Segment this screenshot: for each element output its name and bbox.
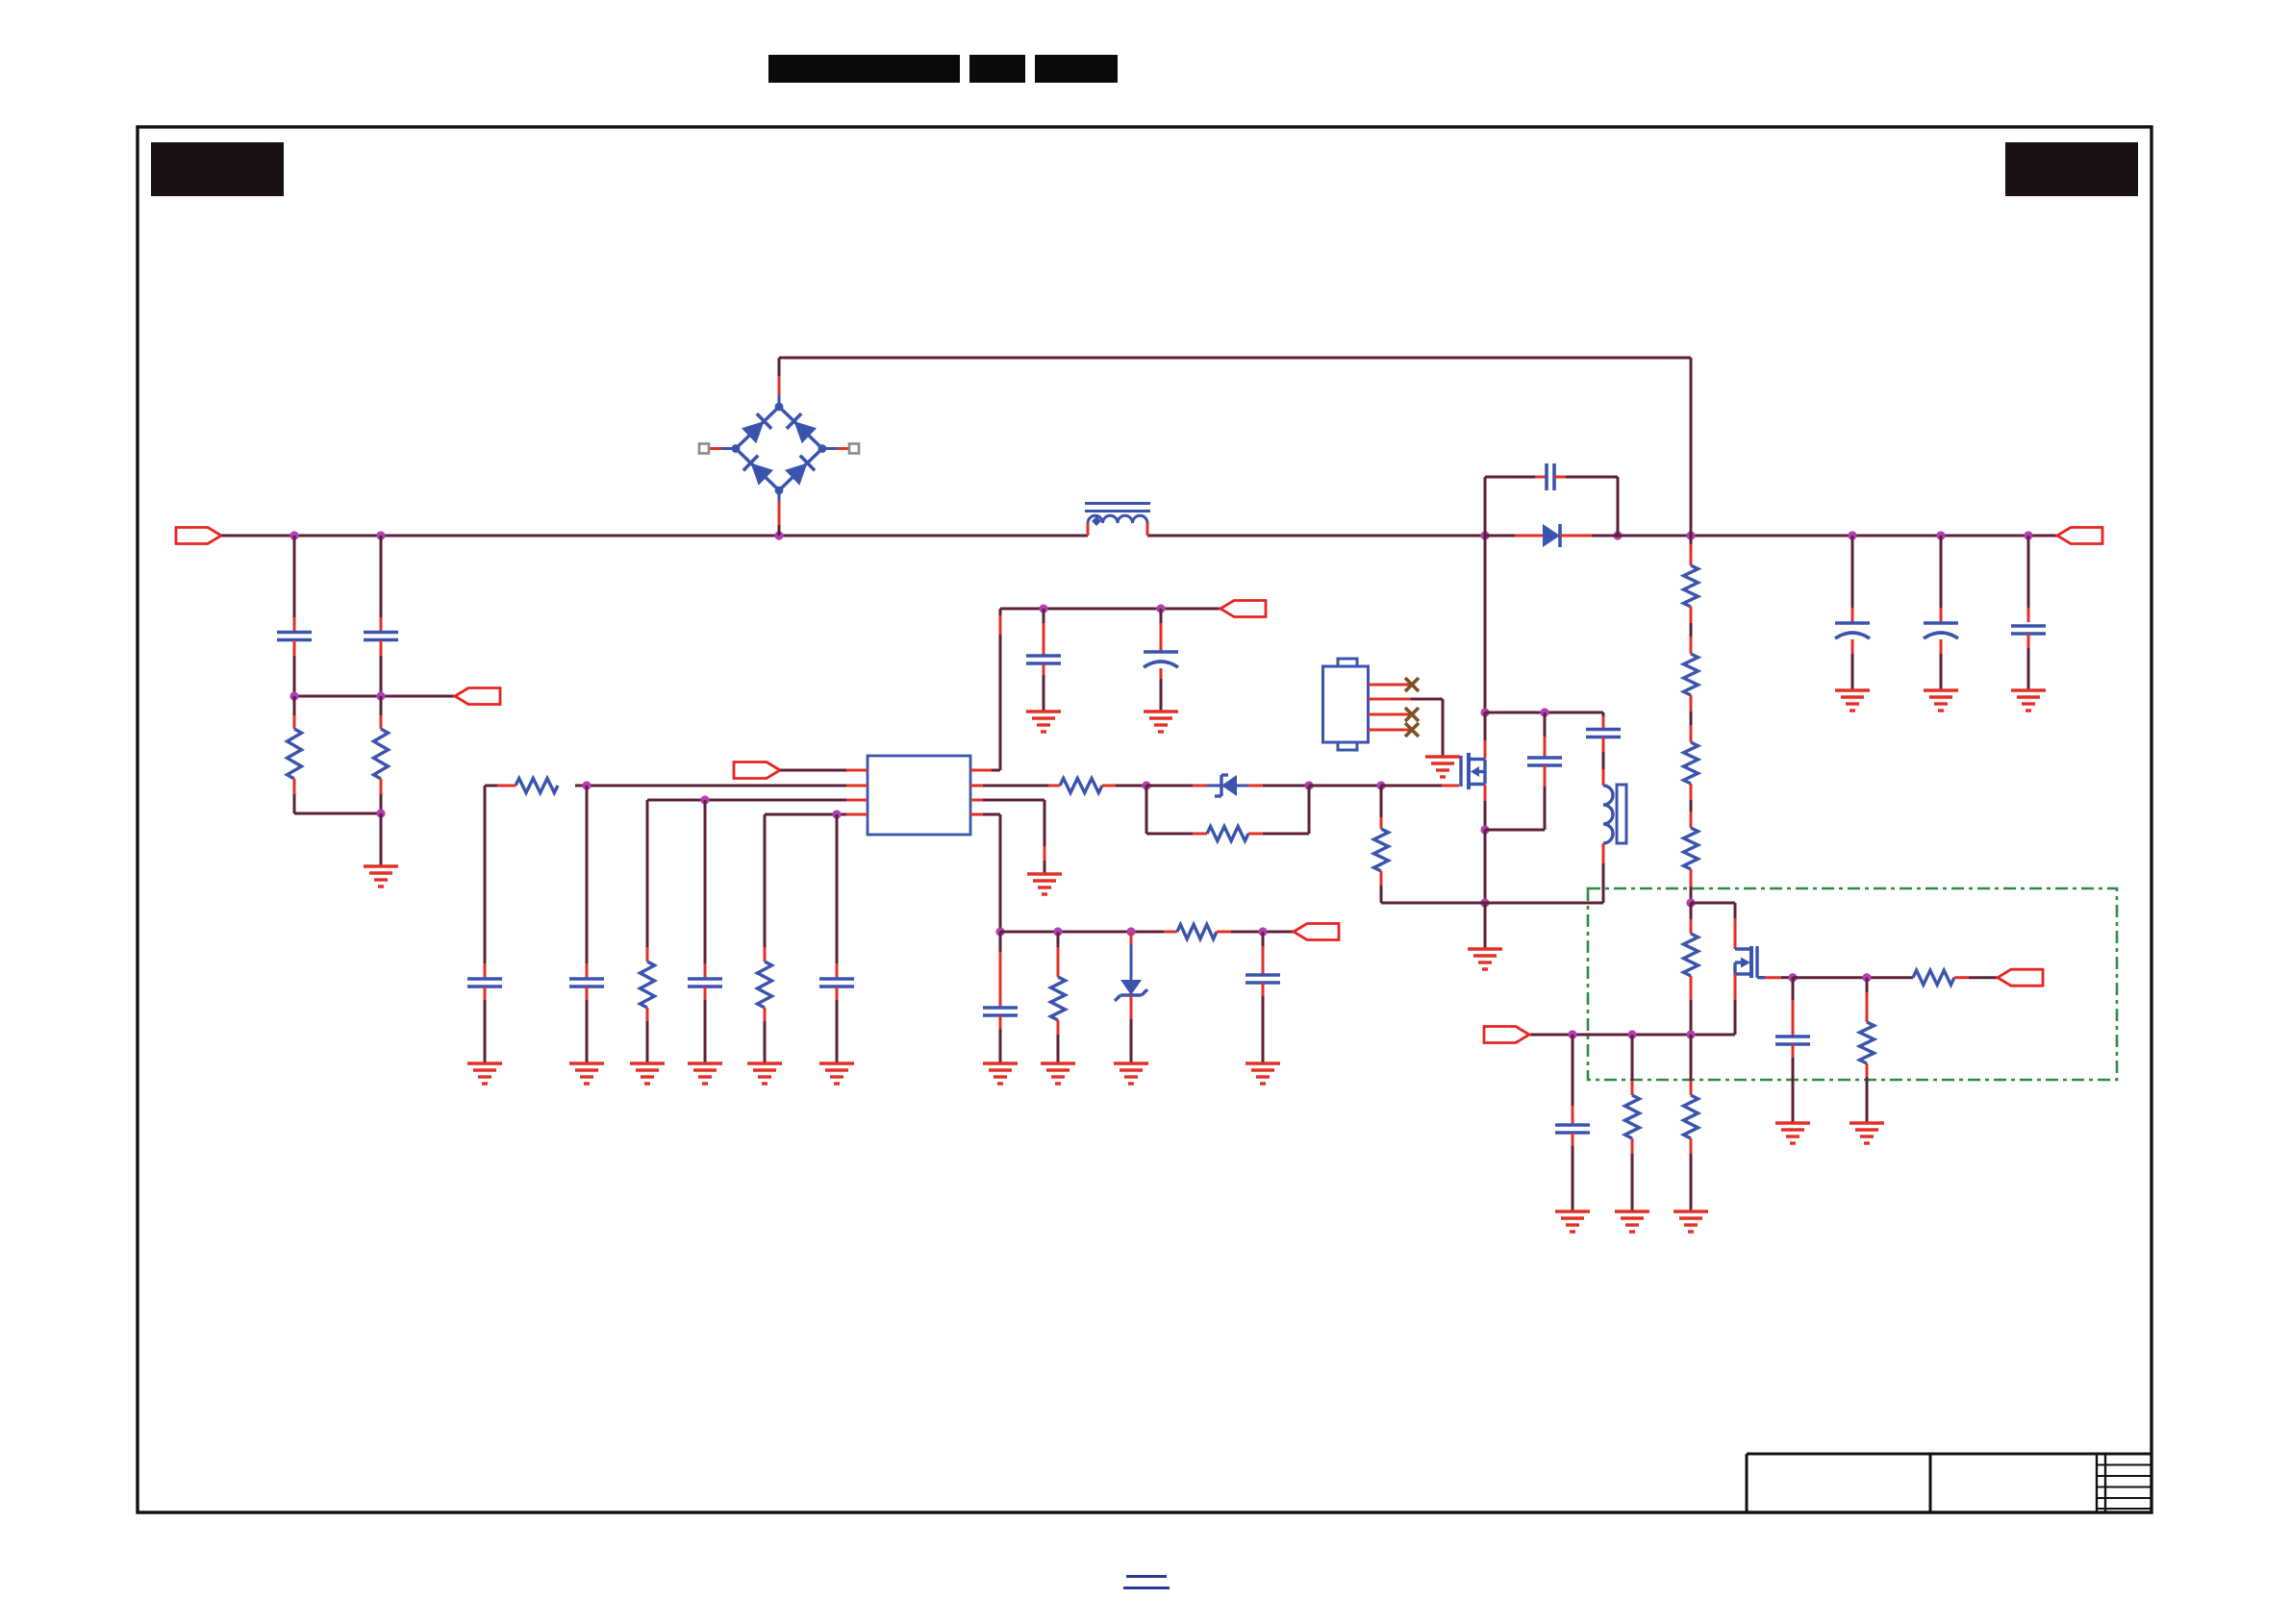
node zener-tee <box>1142 781 1150 789</box>
capacitor C12 <box>2011 626 2046 634</box>
wire to ground <box>380 813 383 866</box>
resistor R2 <box>374 729 389 779</box>
transformer T1 core <box>1617 785 1626 843</box>
node rail-C3 <box>1039 604 1047 612</box>
wire R16 lower <box>1866 1063 1869 1123</box>
bridge diode D-TR <box>787 413 817 443</box>
capacitor C5 <box>1547 463 1554 490</box>
wire C6 lower <box>484 987 487 1063</box>
port P1 input arrow <box>176 528 221 544</box>
wire zener right lead <box>1237 785 1309 787</box>
diode D1 <box>1543 524 1560 547</box>
wire Q2 gate lead <box>1765 976 1793 979</box>
ground GND12 <box>1041 1063 1075 1084</box>
resistor R23 <box>1684 828 1699 869</box>
wire C9 lead <box>836 814 839 978</box>
wire fbC2 lower <box>1262 983 1265 1063</box>
ground GND2 <box>1026 712 1061 732</box>
resistor R3 <box>516 779 558 793</box>
no-connect X2 <box>1405 708 1419 721</box>
wire fbC lower <box>999 1015 1002 1063</box>
capacitor C3 <box>1026 656 1061 663</box>
node pin4-col <box>832 810 841 818</box>
wire U1 pin1 <box>780 769 868 772</box>
wire bottom join <box>294 812 381 815</box>
node tap-R2 <box>376 691 385 700</box>
redacted label top-left <box>151 142 284 196</box>
wire Q2 out row <box>1793 976 1913 979</box>
wire R2 lower lead <box>380 779 383 813</box>
ground GND14 <box>1246 1063 1280 1084</box>
wire source gnd <box>1484 903 1487 949</box>
ground GND22 <box>1835 690 1870 711</box>
inductor L1 coil <box>1088 515 1147 523</box>
wire bridge bottom lead <box>778 490 781 536</box>
capacitor C11 polarized <box>1924 623 1958 638</box>
capacitor C8 <box>688 979 722 987</box>
wire R1 upper lead <box>293 696 296 729</box>
resistor R16 <box>1860 1022 1875 1063</box>
wire Q1 drain lead <box>1484 712 1487 759</box>
wire J1 pin3 <box>1369 713 1411 716</box>
port P6 fb arrow <box>1294 924 1339 940</box>
resistor R15 <box>1913 970 1954 985</box>
sheet border frame <box>138 127 2152 1512</box>
wire R9 lower path <box>1146 786 1207 834</box>
wire C11 upper lead <box>1940 536 1943 622</box>
port P7 sense arrow <box>1998 969 2043 986</box>
wire top loop <box>779 358 1691 536</box>
node rail-C4 <box>1156 604 1165 612</box>
resistor R18 <box>1684 1095 1699 1138</box>
capacitor C18 <box>1555 1125 1590 1133</box>
wire chain link3 <box>1690 784 1693 828</box>
wire Q2 source lead <box>1529 974 1735 1035</box>
wire U1 pin7 <box>970 785 1060 787</box>
port P5 rail arrow <box>1220 601 1266 617</box>
capacitor C13 <box>983 1008 1018 1015</box>
inductor L1 phase dot <box>1092 516 1101 526</box>
node bus-D1a <box>1480 531 1489 539</box>
wire vcc top rail <box>1000 608 1220 611</box>
no-connect X3 <box>1405 723 1419 737</box>
wire C5 loop right <box>1554 477 1618 536</box>
wire C12 upper lead <box>2027 536 2030 622</box>
ground GND17 <box>1775 1123 1810 1143</box>
wire C7 lead <box>586 786 589 978</box>
resistor R8 <box>1060 779 1102 793</box>
wire bus left <box>221 535 1088 537</box>
resistor R11 <box>1051 977 1066 1020</box>
wire R5 lower <box>764 1008 767 1063</box>
port P8 sense-in arrow <box>1484 1027 1529 1043</box>
ground GND20 <box>1615 1212 1649 1232</box>
wire chain stub1 <box>1690 536 1693 565</box>
title block <box>1747 1454 2152 1512</box>
wire C18 lead <box>1572 1035 1574 1124</box>
wire U1 pin2 <box>575 785 868 787</box>
wire C16 lower lead <box>1602 737 1605 787</box>
wire U1 pin3 <box>647 799 868 802</box>
wire D1 cathode lead <box>1560 535 1618 537</box>
redacted title bar 2 <box>969 55 1025 83</box>
node pin3-col <box>700 795 709 804</box>
node bus-C12 <box>2024 531 2032 539</box>
wire R18 lead <box>1690 1035 1693 1095</box>
wire C1 lower lead <box>293 640 296 696</box>
ground GND6 <box>569 1063 604 1084</box>
ground GND21 <box>1673 1212 1708 1232</box>
resistor R4 <box>641 962 655 1008</box>
wire fbZ lower <box>1130 995 1133 1063</box>
resistor R20 <box>1684 565 1699 607</box>
node drain-C15 <box>1540 708 1548 716</box>
node chain-Q2 <box>1686 898 1695 907</box>
node lowrow-3 <box>1686 1030 1695 1038</box>
wire C16 upper lead <box>1602 712 1605 729</box>
node pin2-col <box>582 781 591 789</box>
revision underline 2 <box>1123 1587 1170 1589</box>
capacitor C10 polarized <box>1835 623 1870 638</box>
capacitor C15 <box>1527 758 1562 765</box>
wire C3 lower lead <box>1043 664 1045 712</box>
wire bridge top lead <box>778 358 781 407</box>
wire R18 lower <box>1690 1138 1693 1212</box>
wire zener left lead <box>1146 785 1221 787</box>
wire C9 lower <box>836 987 839 1063</box>
wire R16 lead <box>1866 978 1869 1022</box>
ground GND7 <box>630 1063 665 1084</box>
connector J1 body <box>1323 659 1369 750</box>
wire J1 pin1 <box>1369 684 1411 687</box>
wire R1 lower lead <box>293 779 296 813</box>
wire C15 upper lead <box>1544 712 1547 757</box>
wire gate feed <box>1309 785 1381 787</box>
redacted title bar 3 <box>1035 55 1118 83</box>
wire U1 pin6 <box>970 800 1044 874</box>
wire R12 lower <box>1381 871 1485 903</box>
wire C4 lower lead <box>1160 668 1163 712</box>
wire source down <box>1484 830 1487 903</box>
ground GND15 <box>1425 757 1460 777</box>
port P3 tap arrow <box>455 688 500 705</box>
wire C17 lower <box>1792 1044 1795 1123</box>
resistor R12 <box>1374 829 1389 871</box>
wire R17 lead <box>1631 1035 1634 1095</box>
wire C3 upper lead <box>1043 609 1045 655</box>
wire chain link1 <box>1690 607 1693 654</box>
ground GND24 <box>2011 690 2046 711</box>
bridge diode D-TL <box>742 413 771 443</box>
ground GND18 <box>1850 1123 1884 1143</box>
wire fbR lead <box>1057 932 1060 977</box>
wire R8 right lead <box>1102 785 1146 787</box>
bridge diode D-BR <box>785 456 815 486</box>
wire R24 lower <box>1690 976 1693 1035</box>
wire R4 lower <box>646 1008 649 1063</box>
ground GND19 <box>1555 1212 1590 1232</box>
node fb-3 <box>1126 927 1135 936</box>
node bus-C10 <box>1848 531 1856 539</box>
wire fbC2 lead <box>1262 932 1265 974</box>
ground GND11 <box>983 1063 1018 1084</box>
resistor R17 <box>1625 1095 1640 1138</box>
wire C1 upper lead <box>293 536 296 631</box>
ground GND8 <box>688 1063 722 1084</box>
wire C10 lower lead <box>1851 639 1854 690</box>
ground GND9 <box>747 1063 782 1084</box>
wire R15 right lead <box>1954 976 1998 979</box>
ground GND13 <box>1114 1063 1148 1084</box>
node bus-C2 <box>376 531 385 539</box>
redacted label top-right <box>2005 142 2138 196</box>
node gate-tee <box>1376 781 1385 789</box>
capacitor C17 <box>1775 1037 1810 1044</box>
revision underline 1 <box>1126 1575 1167 1578</box>
wire J1 pin2 <box>1369 699 1444 757</box>
wire drain row <box>1485 712 1603 714</box>
transformer T1 primary <box>1603 786 1613 843</box>
wire C10 upper lead <box>1851 536 1854 622</box>
wire U1 pin8 <box>970 609 1000 770</box>
ground GND4 <box>1027 874 1062 894</box>
wire R9 right lead <box>1248 786 1309 834</box>
node fb-1 <box>995 927 1004 936</box>
resistor R5 <box>758 962 772 1008</box>
wire chain link2 <box>1690 695 1693 742</box>
node join-gnd <box>376 809 385 817</box>
node fb-4 <box>1258 927 1267 936</box>
node bus-Rchain <box>1686 531 1695 539</box>
mosfet Q1 <box>1381 753 1485 789</box>
wire chain link4 <box>1690 869 1693 903</box>
node bus-bridge <box>774 531 783 539</box>
capacitor C1 <box>277 633 312 640</box>
wire C5 loop left <box>1485 477 1547 536</box>
wire bus right <box>1618 535 2057 537</box>
capacitor C7 <box>569 979 604 987</box>
wire U1 pin4 <box>765 813 868 816</box>
port P2 output arrow <box>2057 528 2102 544</box>
ground GND1 <box>364 866 398 887</box>
redacted title bar 1 <box>768 55 960 83</box>
wire Q1 source lead <box>1484 785 1487 830</box>
inductor L1 core <box>1085 504 1150 512</box>
wire C2 lower lead <box>380 640 383 696</box>
node Q1-drain-tee <box>1480 708 1489 716</box>
wire C15 lower lead <box>1485 765 1545 830</box>
wire C12 lower lead <box>2027 634 2030 690</box>
wire Q2 drain feed <box>1691 903 1735 949</box>
ground GND10 <box>819 1063 854 1084</box>
mosfet Q2 <box>1735 946 1765 978</box>
wire C17 lead <box>1792 978 1795 1036</box>
bridge right terminal <box>822 444 859 454</box>
node zener-join <box>1304 781 1313 789</box>
node lowrow-1 <box>1568 1030 1576 1038</box>
node Q1-source-tee <box>1480 825 1489 834</box>
wire R4 lead <box>646 800 649 962</box>
capacitor C4 polarized <box>1144 652 1178 667</box>
no-connect X1 <box>1405 678 1419 691</box>
resistor R21 <box>1684 654 1699 695</box>
wire C11 lower lead <box>1940 639 1943 690</box>
bridge BD1 diamond <box>736 407 822 490</box>
wire C7 lower <box>586 987 589 1063</box>
node bus-D1k <box>1613 531 1622 539</box>
wire fbZ lead <box>1130 932 1133 981</box>
wire C8 lead <box>704 800 707 978</box>
ground GND16 <box>1468 949 1502 969</box>
capacitor C14 <box>1246 975 1280 983</box>
node Q2out-1 <box>1788 973 1797 982</box>
node bus-C11 <box>1936 531 1945 539</box>
sense box (green dashed) <box>1588 888 2117 1080</box>
node tap-R1 <box>289 691 298 700</box>
node source-gnd-tee <box>1480 898 1489 907</box>
wire C8 lower <box>704 987 707 1063</box>
ground GND23 <box>1924 690 1958 711</box>
wire bus mid <box>1147 535 1485 537</box>
node bus-C1 <box>289 531 298 539</box>
wire gate-res link <box>1380 786 1383 829</box>
wire C2 upper lead <box>380 536 383 631</box>
capacitor C9 <box>819 979 854 987</box>
capacitor C16 <box>1586 730 1621 737</box>
capacitor C2 <box>364 633 398 640</box>
capacitor C6 <box>467 979 502 987</box>
wire fbR lower <box>1057 1020 1060 1063</box>
wire D1 anode lead <box>1485 535 1543 537</box>
wire fb right <box>1217 931 1294 934</box>
wire J1 pin4 <box>1369 729 1411 732</box>
wire C4 upper lead <box>1160 609 1163 651</box>
wire fb row <box>1000 931 1177 934</box>
wire T1 bottom lead <box>1485 843 1603 903</box>
wire R5 lead <box>764 814 767 962</box>
zener diode ZD2 <box>1115 980 1147 1001</box>
resistor R22 <box>1684 742 1699 784</box>
node lowrow-2 <box>1627 1030 1636 1038</box>
resistor R9 <box>1207 827 1248 841</box>
wire R17 lower <box>1631 1138 1634 1212</box>
resistor R1 <box>288 729 302 779</box>
IC U1 body <box>868 756 970 835</box>
node Q2out-2 <box>1862 973 1871 982</box>
bridge diode D-BL <box>743 456 773 486</box>
wire C6 lead <box>484 786 487 978</box>
bridge vertex dots <box>732 403 827 495</box>
bridge left terminal <box>699 444 736 454</box>
resistor R10 <box>1177 925 1217 939</box>
wire D1a down <box>1484 536 1487 712</box>
ground GND5 <box>467 1063 502 1084</box>
wire R3 left lead <box>485 785 516 787</box>
wire mid tap <box>294 695 455 698</box>
wire U1 pin5 <box>970 814 1000 932</box>
wire fbC lead <box>999 932 1002 1007</box>
port P4 VCC arrow <box>734 762 780 779</box>
zener diode ZD1 <box>1215 775 1237 796</box>
node fb-2 <box>1053 927 1062 936</box>
wire C18 lower <box>1572 1133 1574 1212</box>
ground GND3 <box>1144 712 1178 732</box>
resistor R24 <box>1684 934 1699 976</box>
wire R2 upper lead <box>380 696 383 729</box>
inductor L1 leads <box>1088 523 1147 536</box>
wire chain in box <box>1690 903 1693 934</box>
